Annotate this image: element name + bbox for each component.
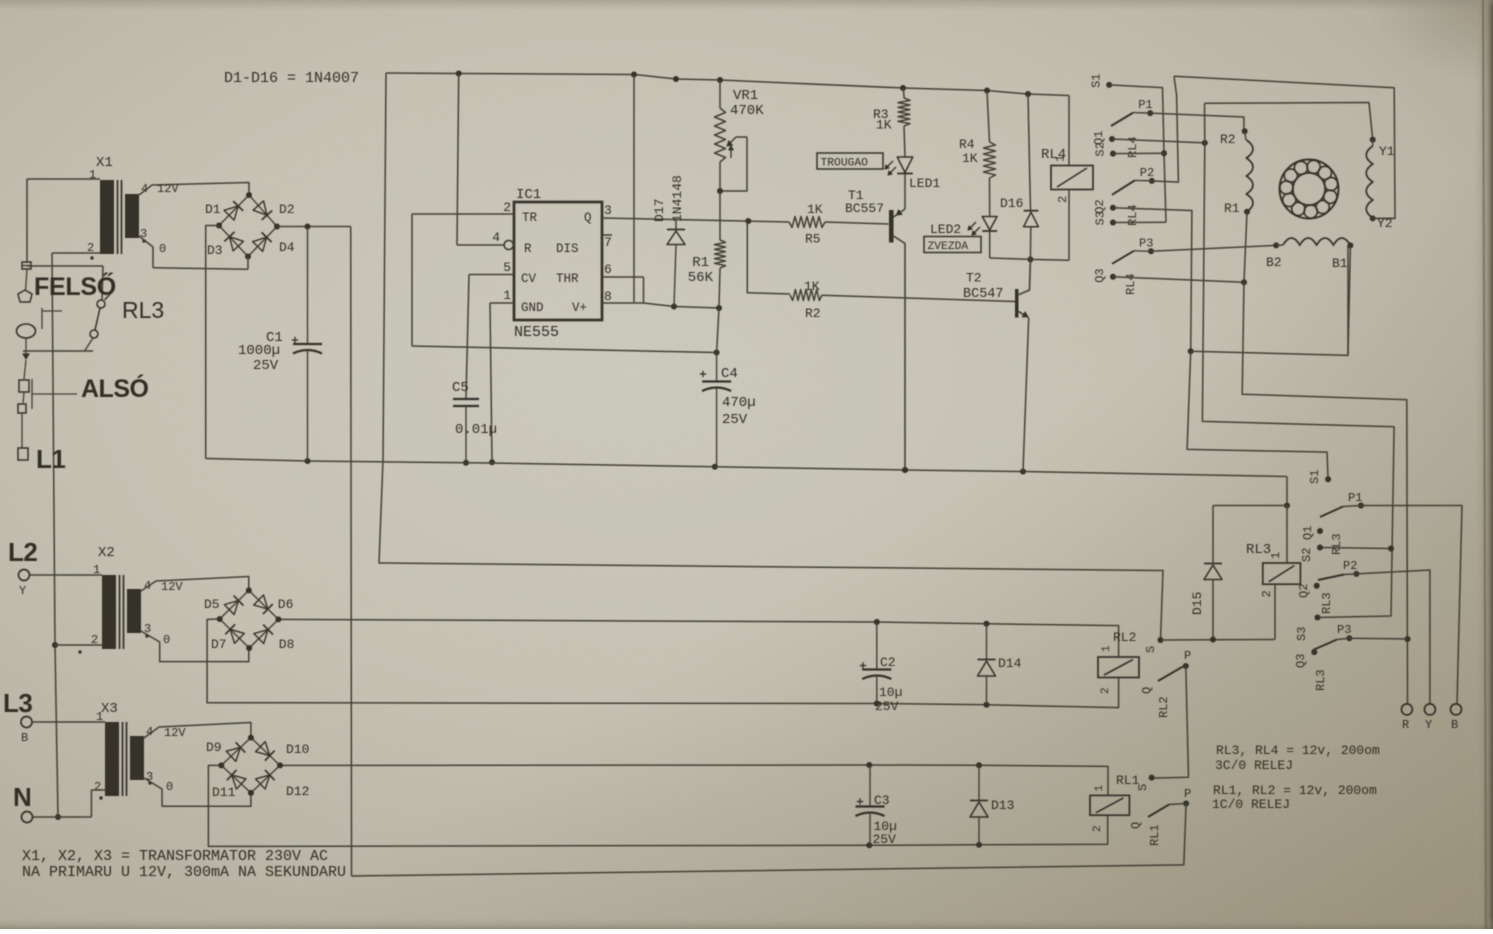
svg-text:D1: D1 [205,202,221,217]
svg-text:3C/0 RELEJ: 3C/0 RELEJ [1215,758,1293,773]
svg-text:LED1: LED1 [909,176,940,191]
svg-text:P1: P1 [1348,491,1362,505]
svg-text:1: 1 [503,288,511,303]
svg-text:R2: R2 [1220,132,1236,147]
svg-text:D11: D11 [212,785,236,800]
svg-text:Y2: Y2 [1377,216,1393,231]
svg-text:R1: R1 [692,255,709,271]
svg-text:D2: D2 [279,202,295,217]
svg-text:B1: B1 [1332,256,1348,271]
svg-text:0: 0 [163,633,170,647]
svg-text:1: 1 [93,563,100,577]
svg-text:GND: GND [521,301,544,315]
svg-text:1: 1 [1101,645,1113,652]
svg-text:D9: D9 [206,740,222,755]
svg-text:470K: 470K [730,103,764,119]
svg-text:D6: D6 [278,597,294,612]
svg-text:S1: S1 [1308,470,1322,484]
svg-text:2: 2 [1100,687,1112,694]
svg-text:V+: V+ [572,301,587,315]
svg-text:Q: Q [584,211,592,225]
svg-text:LED2: LED2 [930,222,961,237]
svg-text:S3: S3 [1094,211,1108,225]
svg-text:S2: S2 [1300,548,1314,562]
svg-text:12V: 12V [157,182,179,196]
svg-text:C5: C5 [452,380,469,396]
svg-text:Y: Y [19,584,26,598]
svg-text:5: 5 [503,260,511,275]
svg-text:C3: C3 [874,793,890,808]
svg-text:RL2: RL2 [1113,630,1136,645]
svg-text:8: 8 [604,289,612,304]
svg-text:1C/0 RELEJ: 1C/0 RELEJ [1212,797,1290,812]
svg-text:D17: D17 [652,199,667,222]
svg-text:D4: D4 [279,240,295,255]
svg-text:S2: S2 [1094,142,1108,156]
svg-text:P3: P3 [1139,236,1153,250]
svg-text:X3: X3 [101,701,118,717]
svg-text:X2: X2 [98,545,115,561]
svg-text:S: S [1136,784,1150,791]
svg-text:1K: 1K [804,279,820,294]
svg-text:1N4148: 1N4148 [670,175,685,222]
svg-text:T2: T2 [966,271,982,286]
svg-text:2: 2 [503,200,511,215]
svg-text:Q2: Q2 [1297,584,1311,598]
svg-text:THR: THR [556,272,579,286]
svg-text:Y1: Y1 [1379,144,1395,159]
svg-text:BC547: BC547 [963,287,1004,302]
svg-text:1K: 1K [876,118,892,133]
svg-text:25V: 25V [875,699,899,714]
svg-text:P: P [1184,787,1191,801]
svg-text:Y: Y [1425,718,1432,732]
svg-text:R4: R4 [959,137,975,152]
svg-text:C2: C2 [880,655,896,670]
svg-text:Q3: Q3 [1294,654,1308,668]
svg-text:D7: D7 [211,637,227,652]
svg-text:D10: D10 [286,742,309,757]
svg-text:N: N [13,782,32,812]
svg-text:470µ: 470µ [722,395,756,411]
svg-text:D15: D15 [1190,592,1205,615]
svg-text:X1, X2, X3 = TRANSFORMATOR 230: X1, X2, X3 = TRANSFORMATOR 230V AC [22,848,328,865]
svg-text:2: 2 [94,780,101,794]
svg-text:R1: R1 [1224,201,1240,216]
svg-text:12V: 12V [161,580,183,594]
svg-text:R: R [1402,718,1409,732]
svg-text:0: 0 [166,780,173,794]
svg-text:IC1: IC1 [516,187,541,203]
svg-text:D3: D3 [207,243,223,258]
svg-text:D8: D8 [279,637,295,652]
svg-text:BC557: BC557 [845,201,884,216]
svg-text:2: 2 [1260,590,1274,597]
svg-text:2: 2 [1056,196,1070,203]
svg-text:D13: D13 [991,798,1014,813]
svg-text:P3: P3 [1337,623,1351,637]
svg-text:R2: R2 [805,306,821,321]
svg-text:6: 6 [604,262,612,277]
svg-text:3: 3 [604,203,612,218]
svg-text:D16: D16 [1000,196,1023,211]
svg-text:R5: R5 [805,232,821,247]
svg-text:0.01µ: 0.01µ [455,422,497,438]
svg-text:Q: Q [1129,822,1143,829]
svg-text:VR1: VR1 [733,88,758,104]
svg-text:RL1: RL1 [1148,824,1162,846]
svg-text:B: B [1451,718,1458,732]
svg-text:NA PRIMARU U 12V, 300mA NA SEK: NA PRIMARU U 12V, 300mA NA SEKUNDARU [22,864,346,881]
svg-text:ZVEZDA: ZVEZDA [928,241,969,253]
svg-text:P1: P1 [1138,98,1152,112]
svg-text:P: P [1184,649,1191,663]
svg-text:X1: X1 [96,155,113,171]
svg-text:1: 1 [1054,155,1068,162]
svg-text:RL2: RL2 [1157,696,1171,718]
svg-text:B: B [21,731,28,745]
svg-text:1: 1 [1269,552,1283,559]
svg-text:1: 1 [1094,785,1106,792]
svg-text:12V: 12V [164,726,186,740]
svg-text:Q1: Q1 [1301,526,1315,540]
svg-text:1K: 1K [962,151,978,166]
svg-text:S3: S3 [1295,627,1309,641]
svg-text:ALSÓ: ALSÓ [81,373,149,403]
svg-text:Q: Q [1140,687,1154,694]
svg-text:1: 1 [89,168,96,182]
svg-text:RL1, RL2 = 12v, 200om: RL1, RL2 = 12v, 200om [1213,783,1377,798]
svg-text:10µ: 10µ [879,685,902,700]
svg-text:S: S [1144,646,1158,653]
svg-text:1: 1 [96,710,103,724]
svg-text:25V: 25V [253,358,279,374]
svg-text:RL3: RL3 [1314,669,1328,691]
svg-text:D5: D5 [204,597,220,612]
svg-text:1000µ: 1000µ [238,343,280,359]
svg-text:D1-D16 = 1N4007: D1-D16 = 1N4007 [224,70,359,87]
svg-text:B2: B2 [1266,255,1282,270]
svg-text:DIS: DIS [556,242,579,256]
svg-text:S1: S1 [1090,73,1104,87]
svg-text:1K: 1K [807,202,823,217]
svg-text:TROUGAO: TROUGAO [821,158,869,170]
svg-text:D12: D12 [286,784,309,799]
svg-text:C4: C4 [721,366,738,382]
svg-text:RL3: RL3 [1330,533,1344,555]
svg-text:25V: 25V [722,412,748,428]
svg-text:RL3, RL4 = 12v, 200om: RL3, RL4 = 12v, 200om [1216,743,1380,758]
svg-text:RL3: RL3 [1246,542,1271,558]
svg-text:4: 4 [492,230,500,245]
svg-text:RL3: RL3 [1320,592,1334,614]
svg-text:D14: D14 [998,656,1022,671]
svg-text:2: 2 [1092,825,1104,832]
svg-text:RL3: RL3 [122,297,164,323]
svg-text:CV: CV [521,272,537,286]
svg-text:L1: L1 [36,444,65,474]
svg-text:56K: 56K [688,270,714,286]
svg-text:TR: TR [522,211,538,225]
svg-text:7: 7 [604,235,612,250]
svg-text:0: 0 [159,242,166,256]
svg-text:L2: L2 [8,537,37,567]
svg-text:25V: 25V [873,832,897,847]
svg-text:Q3: Q3 [1093,268,1107,282]
svg-text:L3: L3 [3,688,32,718]
svg-text:NE555: NE555 [514,324,559,341]
svg-text:FELSŐ: FELSŐ [34,272,116,301]
svg-text:R: R [524,242,532,256]
svg-text:P2: P2 [1343,559,1357,573]
svg-text:P2: P2 [1140,166,1154,180]
